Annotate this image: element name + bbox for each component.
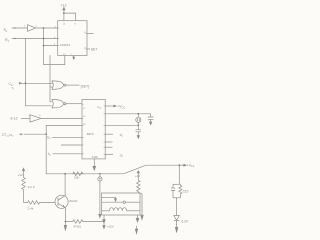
svg-text:2N2222: 2N2222 [69,201,78,203]
svg-text:6.2V: 6.2V [182,219,189,223]
svg-text:+VCC: +VCC [118,105,126,110]
svg-text:16: 16 [83,116,86,118]
svg-text:+12V: +12V [107,225,115,229]
svg-text:C10: C10 [183,189,189,193]
svg-text:E0: E0 [47,135,51,140]
svg-text:S1: S1 [4,28,8,33]
svg-text:14: 14 [63,24,66,26]
svg-text:10k: 10k [74,176,79,180]
svg-text:1: 1 [24,26,26,28]
svg-text:2: 2 [36,26,38,28]
svg-text:[SET]: [SET] [81,84,90,88]
svg-text:7: 7 [71,54,72,56]
svg-text:1 2: 1 2 [63,54,66,56]
svg-text:d2: d2 [120,133,124,138]
svg-text:+12: +12 [135,174,140,178]
svg-text:8: 8 [75,24,77,26]
svg-text:E-12: E-12 [11,117,18,121]
svg-text:2.2 K: 2.2 K [28,185,36,189]
svg-text:d1: d1 [120,153,124,158]
svg-text:TL: TL [12,86,15,91]
svg-text:Q: Q [84,32,86,34]
svg-text:VDD: VDD [97,106,102,110]
svg-text:+12: +12 [18,173,24,177]
svg-text:CTout/S2: CTout/S2 [2,133,14,138]
svg-text:2,4k: 2,4k [28,206,34,210]
svg-text:+12: +12 [61,3,67,7]
svg-text:470Ω: 470Ω [73,225,81,229]
svg-text:15: 15 [83,124,86,126]
svg-text:8870: 8870 [87,132,94,136]
svg-text:SET: SET [91,48,98,52]
svg-text:+Vout: +Vout [187,163,195,168]
svg-text:Q: Q [84,48,86,50]
svg-text:GND: GND [92,155,98,159]
svg-text:17: 17 [83,108,86,110]
svg-text:6: 6 [39,115,41,117]
svg-text:R1: R1 [5,38,10,43]
svg-text:CD4013: CD4013 [60,43,71,47]
svg-text:h0: h0 [48,152,52,157]
